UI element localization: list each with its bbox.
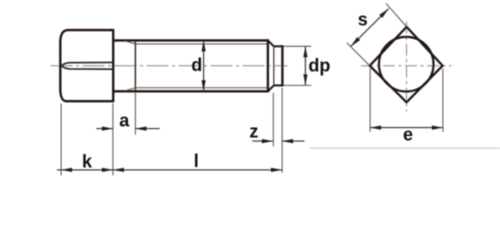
extension line s from left corner bbox=[347, 43, 370, 66]
arrow z left bbox=[262, 139, 273, 143]
centerline end view vertical bbox=[406, 22, 408, 112]
svg-text:e: e bbox=[403, 125, 413, 145]
dim line s bbox=[351, 9, 389, 47]
extension line a left (head face) bbox=[112, 103, 114, 175]
extension line s from top corner bbox=[386, 3, 407, 27]
arrow e left bbox=[370, 126, 381, 130]
dim line k bbox=[57, 169, 113, 171]
arrow s lower bbox=[351, 37, 360, 46]
extension line dp top bbox=[284, 45, 312, 47]
extension line a right (thread start) bbox=[134, 93, 136, 135]
centerline end view horizontal bbox=[361, 65, 452, 67]
thread start vertical bbox=[134, 40, 136, 91]
dim line dp bbox=[304, 46, 306, 85]
svg-text:d: d bbox=[191, 55, 202, 75]
arrow d top bbox=[202, 40, 206, 51]
thread minor diameter bottom bbox=[135, 87, 268, 89]
arrow a left bbox=[102, 127, 113, 131]
dim line e bbox=[370, 127, 443, 129]
svg-text:s: s bbox=[358, 10, 368, 30]
shaft top outline bbox=[113, 39, 268, 41]
dog point junction vertical bbox=[273, 46, 275, 85]
extension line dp bottom bbox=[284, 84, 312, 86]
extension line z right / l right (tip face) bbox=[281, 88, 283, 173]
extension line k left bbox=[60, 104, 62, 176]
square head end view outline bbox=[370, 27, 443, 102]
arrow dp top bbox=[303, 46, 307, 57]
dog point bottom outline bbox=[274, 84, 283, 86]
svg-text:z: z bbox=[249, 122, 258, 142]
arrow l right bbox=[271, 168, 282, 172]
tip chamfer bottom bbox=[268, 85, 274, 91]
dim line a left tail bbox=[96, 128, 113, 130]
svg-text:l: l bbox=[194, 151, 199, 171]
arrow l left bbox=[113, 168, 124, 172]
screw head outline bbox=[60, 30, 113, 101]
arrow s upper bbox=[379, 9, 388, 18]
arrow dp bottom bbox=[303, 74, 307, 85]
svg-text:a: a bbox=[119, 111, 130, 131]
dim line a right tail bbox=[135, 128, 159, 130]
dog point top outline bbox=[274, 45, 283, 47]
extension: none, dim line d bbox=[203, 40, 205, 91]
faint table rule bbox=[310, 147, 500, 149]
thread end vertical bbox=[267, 39, 269, 92]
svg-text:k: k bbox=[82, 152, 93, 172]
arrow k right bbox=[102, 168, 113, 172]
shaft bottom outline bbox=[113, 90, 268, 92]
extension line e right bbox=[442, 69, 444, 132]
thread minor diameter top bbox=[135, 43, 268, 45]
svg-text:dp: dp bbox=[308, 55, 330, 75]
extension line z left bbox=[272, 93, 274, 146]
extension line e left bbox=[369, 69, 371, 132]
thread runout bottom bbox=[126, 88, 136, 91]
dim line z left tail bbox=[252, 140, 273, 142]
tip chamfer top bbox=[268, 40, 274, 46]
dim line z right tail bbox=[282, 140, 304, 142]
thread runout top bbox=[126, 41, 136, 44]
arrow e right bbox=[432, 126, 443, 130]
arrow d bottom bbox=[202, 80, 206, 91]
chamfer circle end view bbox=[379, 37, 434, 92]
head bearing face (right edge) bbox=[112, 29, 114, 102]
head corner ridge upper line bbox=[62, 62, 113, 65]
arrow k left bbox=[61, 168, 72, 172]
head corner ridge lower line bbox=[62, 66, 113, 69]
centerline screw axis bbox=[51, 65, 288, 67]
dim line l bbox=[113, 169, 282, 171]
tip end face bbox=[281, 45, 283, 86]
arrow a right bbox=[135, 127, 146, 131]
arrow z right bbox=[282, 139, 293, 143]
